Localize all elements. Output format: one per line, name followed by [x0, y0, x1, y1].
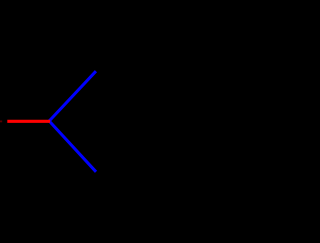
wire: incoming red line (drawn on top at the vertex): [9, 120, 49, 123]
wire: lower outgoing blue line: [49, 121, 95, 171]
faint red dot at left edge (clipped marker): [0, 121, 2, 123]
wire: upper outgoing blue line: [49, 72, 95, 121]
